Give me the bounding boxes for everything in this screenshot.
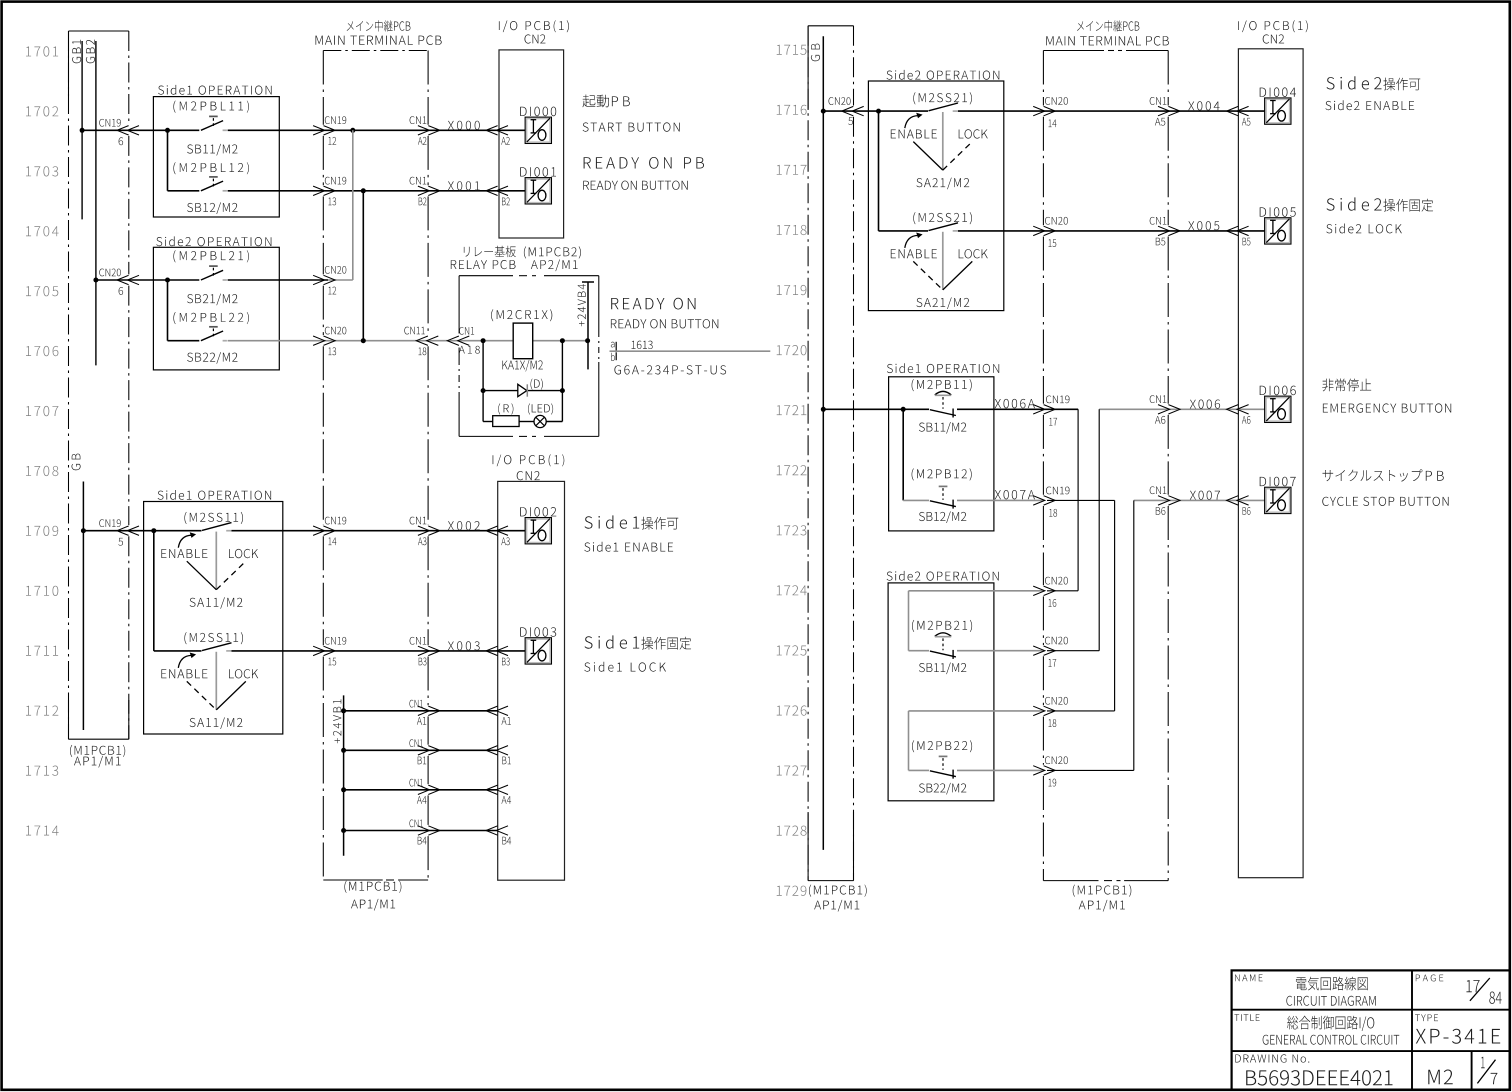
title block TYPE cell XP-341E	[1415, 1014, 1438, 1021]
emergency pushbutton SB11/M2 side2 (NC, mushroom)	[930, 651, 956, 657]
title block TITLE cell	[1234, 1014, 1259, 1021]
line number 1706	[26, 346, 58, 356]
PCB boundary (M1PCB1) AP1/M1 right GB box	[808, 25, 853, 27]
bus GB2	[86, 40, 95, 64]
junction X004 branch	[876, 109, 881, 114]
label (M2PB22)	[912, 740, 972, 752]
line number 1729	[777, 886, 807, 896]
wire link X007A down to CN20-18	[1114, 500, 1116, 711]
connector arrow CN2-A6	[1227, 405, 1239, 414]
line number 1723	[777, 525, 807, 535]
line number 1705	[26, 286, 58, 296]
junction X000 branch to SB12	[165, 128, 170, 133]
connector box I/O PCB(1) CN2 lower-left	[498, 481, 565, 880]
label MAIN TERMINAL PCB right header	[1077, 20, 1139, 31]
line number 1711	[26, 646, 58, 656]
label DI007	[1260, 477, 1296, 487]
connector arrow CN20-13	[313, 336, 325, 345]
line number 1702	[26, 106, 58, 116]
pin label CN20-17	[1045, 637, 1068, 645]
line number 1728	[777, 826, 807, 836]
junction branch to SB22	[165, 278, 170, 283]
pin label CN1-A2	[410, 116, 427, 124]
connector arrow CN19-14	[313, 526, 325, 535]
wire resistor to LED	[519, 421, 534, 423]
label (M2PBL11)	[173, 101, 249, 113]
line number 1708	[26, 466, 58, 476]
pushbutton SB22/M2 (NO contact)	[201, 331, 223, 341]
junction X001 link to CN20-13	[361, 188, 366, 193]
pin label CN1-B4	[409, 820, 422, 828]
label (M1PCB1) AP1/M1 left	[70, 745, 125, 757]
label 1613	[632, 341, 653, 349]
wire CN20-19 (grey)	[957, 769, 1043, 771]
label (M2PBL21)	[173, 250, 249, 262]
connector arrow CN19-12	[313, 126, 325, 135]
connector arrow CN20-19	[1033, 766, 1045, 775]
wire link X006A down to CN20-16	[1077, 409, 1079, 591]
pin label CN20-12	[325, 266, 346, 274]
connector arrow CN19-15	[313, 646, 325, 655]
line number 1713	[26, 766, 58, 776]
connector arrow CN20-17	[1033, 646, 1045, 655]
line number 1720	[777, 345, 807, 355]
wire CN20-17 (grey)	[957, 650, 1043, 652]
selector switch SA11/M2 (LOCK)	[202, 643, 232, 651]
wire link CN20-19 up to X007	[1133, 500, 1135, 770]
box Side1 OPERATION (pushbuttons SB11/SB12)	[153, 97, 279, 217]
connector arrow CN1-A4	[418, 785, 430, 794]
connector arrow CN20-18	[1033, 706, 1045, 715]
pin label B6	[1243, 507, 1251, 515]
line number 1727	[777, 765, 807, 775]
label (M2PB12)	[912, 468, 972, 480]
label DI005	[1260, 207, 1296, 217]
connector arrow CN19-13	[313, 186, 325, 195]
junction link to X001	[361, 338, 366, 343]
annotation READY ON	[611, 298, 695, 310]
annotation ready-on PB	[584, 157, 704, 169]
relay coil KA1X/M2 (M2CR1X)	[513, 323, 533, 359]
box RELAY PCB AP2/M1 (M1PCB2)	[459, 275, 513, 277]
label (M1PCB1) AP1/M1 under left terminal box	[344, 881, 401, 893]
pin label CN19-12	[325, 116, 346, 124]
off-page reference a/b to line 1613	[611, 342, 615, 348]
wire X007 to DI007 (grey)	[1134, 499, 1265, 501]
junction GB right	[821, 109, 826, 114]
annotation Side2 lock	[1327, 197, 1382, 210]
wire resistor row	[483, 421, 493, 423]
label RELAY PCB AP2/M1	[464, 246, 516, 257]
net label X003	[448, 641, 480, 650]
pushbutton SB12/M2 (NC contact)	[930, 501, 956, 507]
pin label CN11-18	[404, 327, 424, 335]
wire X006A from SB11 to CN19-17	[957, 408, 1078, 410]
junction GB1/X000	[80, 128, 85, 133]
power rail +24VB1	[343, 695, 345, 855]
selector switch SA11/M2 (ENABLE)	[202, 523, 232, 531]
pin label CN19-5	[99, 519, 120, 527]
label (M1PCB1) AP1/M1 under right terminal box	[1073, 885, 1132, 897]
label DI001	[520, 167, 556, 177]
junction +24VB1 A4	[341, 787, 346, 792]
label SB12/M2	[919, 511, 966, 523]
connector arrow CN1-B2	[418, 186, 430, 195]
connector arrow CN1-A1	[418, 706, 430, 715]
connector box I/O PCB(1) CN2 right	[1238, 49, 1303, 878]
wire +24VB1 to CN1-A1	[344, 710, 498, 712]
PCB boundary MAIN TERMINAL PCB left (M1PCB1 AP1/M1)	[323, 50, 428, 52]
emergency pushbutton SB11/M2 (NC, mushroom)	[930, 410, 956, 416]
pin label CN1-A1	[409, 700, 422, 708]
line number 1710	[26, 586, 58, 596]
label DI002	[520, 507, 556, 517]
connector arrow CN2-B5	[1227, 226, 1239, 235]
diode D (flyback)	[518, 384, 527, 396]
line number 1721	[777, 405, 807, 415]
wire X004 from GB to SA21	[823, 110, 928, 112]
pushbutton SB11/M2 (NO contact)	[201, 121, 223, 131]
pin label CN1-A4	[409, 779, 422, 787]
title block NAME cell	[1235, 975, 1263, 982]
junction relay left	[481, 338, 486, 343]
net label X006	[1190, 400, 1220, 409]
connector arrow CN19-6	[117, 126, 129, 135]
line number 1718	[777, 225, 807, 235]
label (LED)	[528, 403, 553, 414]
bus GB (right)	[811, 44, 820, 62]
pin label CN20-14	[1045, 97, 1068, 105]
line number 1707	[26, 406, 58, 416]
pin label A1	[501, 717, 510, 725]
title block M2 cell	[1428, 1070, 1452, 1085]
pin label CN1-A5	[1150, 97, 1167, 105]
label (M1PCB1) AP1/M1 right GB	[809, 885, 867, 897]
title block PAGE cell 17/84	[1416, 975, 1444, 982]
wire X004 from SA21 to DI004	[958, 110, 1265, 112]
connector arrow CN2-A1	[486, 706, 498, 715]
connector arrow CN20-12	[313, 275, 325, 284]
pin label A5	[1242, 118, 1250, 126]
wire CN20-16 (grey)	[909, 590, 1044, 592]
wire off-page link to row 1720 (grey)	[610, 350, 771, 352]
pin label B2	[502, 197, 510, 205]
label SB12/M2	[187, 202, 237, 214]
junction X000 link to CN20-12	[350, 128, 355, 133]
pushbutton SB22/M2 (NC contact)	[930, 771, 956, 777]
connector arrow CN1-A5	[1158, 106, 1170, 115]
pin label B4	[502, 837, 511, 845]
label SB21/M2	[187, 294, 237, 306]
line number 1712	[26, 706, 58, 716]
annotation Side1 enable	[585, 515, 640, 528]
junction diode right	[560, 388, 565, 393]
connector arrow CN20-15	[1033, 226, 1045, 235]
connector arrow CN2-A2	[486, 126, 498, 135]
net label X006A	[995, 399, 1035, 408]
resistor R	[493, 416, 519, 427]
box Side2 OPERATION (pushbuttons SB21/SB22)	[153, 247, 279, 370]
pin label CN1-A6	[1150, 395, 1167, 403]
connector arrow CN1-A2	[418, 126, 430, 135]
annotation emergency button	[1322, 379, 1371, 392]
pin label A2	[501, 137, 509, 145]
bus GB1	[72, 40, 81, 64]
connector arrow CN2-B4	[486, 826, 498, 835]
wire +24VB1 to CN1-B1	[344, 749, 498, 751]
pin label CN19-13	[325, 177, 346, 185]
label MAIN TERMINAL PCB left header	[347, 20, 411, 31]
wire X007A from SB12 to CN19-18 (grey)	[957, 499, 1043, 501]
wire X000 from SB11 to DI000	[228, 129, 525, 131]
wire LED to right branch	[546, 421, 562, 423]
junction relay right	[560, 338, 565, 343]
annotation Side2 enable	[1327, 76, 1382, 89]
pushbutton SB12/M2 (NO contact)	[201, 181, 223, 191]
pin label CN1-B2	[410, 177, 427, 185]
line number 1717	[777, 165, 807, 175]
wire link CN20-17 up to X006	[1098, 409, 1100, 650]
connector arrow CN20-6	[117, 275, 129, 284]
I/O input symbol DI005	[1266, 219, 1290, 243]
pin label CN1-A3	[410, 517, 427, 525]
pin label A6	[1242, 416, 1251, 424]
pin label CN19-14	[325, 517, 346, 525]
label DI003	[520, 627, 556, 637]
line number 1714	[26, 826, 59, 836]
wire X006A from GB to SB11	[823, 408, 929, 410]
junction +24VB4 feed	[585, 338, 590, 343]
net label X004	[1188, 101, 1219, 110]
line number 1725	[777, 645, 807, 655]
pin label CN20-19	[1045, 756, 1068, 764]
connector arrow CN1-B3	[418, 646, 430, 655]
line number 1715	[777, 45, 807, 55]
connector arrow CN1-B5	[1158, 226, 1170, 235]
connector arrow CN2-A4	[486, 785, 498, 794]
wire branch to SB12	[902, 409, 904, 500]
connector arrow CN2-B3	[486, 646, 498, 655]
wire from SB22 to relay coil (grey)	[228, 340, 484, 342]
wire branch to second selector SA21	[878, 111, 880, 231]
label (M2PB11)	[912, 379, 972, 391]
label (M2PBL22)	[173, 312, 249, 324]
box Side2 OPERATION (selector SA21)	[868, 81, 1003, 311]
title block frame	[1232, 970, 1510, 1089]
net label X007A	[995, 490, 1035, 499]
bus GB (lower left)	[72, 454, 81, 471]
line number 1703	[26, 166, 58, 176]
junction GB2	[93, 278, 98, 283]
wire diode row	[483, 390, 518, 392]
connector arrow CN20-14	[1033, 106, 1045, 115]
pin label CN19-18	[1046, 487, 1070, 495]
wire relay coil feed (grey)	[483, 340, 513, 342]
connector arrow CN19-5	[117, 526, 129, 535]
connector arrow CN2-B1	[486, 746, 498, 755]
net label X007	[1190, 491, 1220, 500]
label DI004	[1260, 87, 1296, 97]
line number 1722	[777, 465, 807, 475]
wire X000 from GB1 to switch SB11	[82, 129, 199, 131]
selector switch SA21/M2 (ENABLE)	[929, 103, 959, 111]
connector arrow CN2-B2	[486, 186, 498, 195]
net label X000	[448, 121, 480, 130]
label (M2CR1X)	[491, 309, 552, 321]
connector arrow CN1-A6	[1158, 405, 1170, 414]
pin label CN1-B5	[1150, 217, 1167, 225]
connector arrow CN1-B1	[418, 746, 430, 755]
connector arrow CN19-17	[1033, 405, 1045, 414]
pin label CN19-6	[99, 119, 120, 127]
pin label B3	[502, 658, 510, 666]
net label X001	[448, 181, 480, 190]
junction GB	[81, 528, 86, 533]
pin label CN20-18	[1045, 697, 1068, 705]
title block sheet 1/7 cell	[1481, 1057, 1485, 1068]
pin label CN20-13	[325, 327, 346, 335]
label KA1X/M2	[502, 360, 542, 372]
label SB11/M2	[919, 422, 966, 434]
I/O input symbol DI001	[526, 179, 550, 203]
connector arrow CN1-A3	[418, 526, 430, 535]
annotation Side1 lock	[585, 635, 640, 648]
wire X002 from SA11 to DI002	[232, 530, 526, 532]
line number 1724	[777, 585, 807, 595]
label (M2PB21)	[912, 620, 972, 632]
junction GB X006A	[821, 407, 826, 412]
connector arrow CN11-18	[416, 336, 428, 345]
I/O input symbol DI006	[1266, 397, 1290, 421]
junction +24VB1 B1	[341, 748, 346, 753]
wire branch to SB22	[908, 711, 910, 771]
title block DRAWING No. cell	[1235, 1054, 1309, 1062]
label SB22/M2	[187, 352, 237, 364]
wire branch to SB11 side2	[908, 591, 910, 651]
wire branch to SB22	[167, 280, 169, 341]
wire branch from X000 junction to SB12	[167, 130, 169, 191]
pushbutton SB21/M2 (NO contact)	[201, 270, 223, 280]
I/O input symbol DI003	[526, 639, 550, 663]
I/O input symbol DI000	[526, 118, 550, 142]
LED indicator	[534, 415, 546, 427]
pin label CN19-17	[1046, 396, 1070, 404]
box Side1 OPERATION (NC pushbuttons SB11/SB12)	[889, 377, 994, 531]
connector arrow CN20-16	[1033, 586, 1045, 595]
I/O input symbol DI007	[1266, 489, 1290, 513]
I/O input symbol DI004	[1266, 99, 1290, 123]
wire X006 to DI006 (grey)	[1099, 408, 1264, 410]
connector arrow CN20-5	[842, 106, 854, 115]
power rail +24VB4	[587, 282, 589, 369]
label (R)	[498, 403, 513, 414]
wire from SB21 to CN20-12	[228, 279, 328, 281]
connector arrow CN2-A3	[486, 526, 498, 535]
value label G6A-234P-ST-US	[614, 365, 726, 374]
wire CN20-18 (grey)	[909, 710, 1044, 712]
pin label CN20-15	[1045, 217, 1068, 225]
pin label B1	[502, 757, 511, 765]
pin label CN20-16	[1045, 577, 1068, 585]
junction diode left	[481, 388, 486, 393]
label DI006	[1260, 386, 1296, 396]
line number 1719	[777, 285, 807, 295]
pin label A4	[501, 796, 511, 804]
junction +24VB1 A1	[341, 708, 346, 713]
pin label CN1-A18	[459, 327, 474, 335]
pin label A3	[501, 537, 509, 545]
label (M2PBL12)	[173, 162, 249, 174]
wire X001 from SB12 to DI001	[228, 190, 525, 192]
label SB11/M2	[187, 144, 237, 156]
I/O input symbol DI002	[526, 519, 550, 543]
line number 1709	[26, 526, 58, 536]
PCB boundary MAIN TERMINAL PCB right (M1PCB1 AP1/M1)	[1043, 50, 1104, 52]
connector arrow CN19-18	[1033, 496, 1045, 505]
label SB11/M2 (side2)	[919, 663, 966, 675]
pin label CN1-B1	[409, 739, 422, 747]
wire X002 from GB to selector SA11	[83, 530, 201, 532]
box Side1 OPERATION (selector SA11)	[144, 502, 283, 735]
wire link CN20-12 up to X000 (grey)	[328, 279, 353, 281]
junction +24VB1 B4	[341, 828, 346, 833]
net label X002	[448, 521, 480, 530]
line number 1716	[777, 105, 807, 115]
pin label CN1-B6	[1150, 486, 1167, 494]
label (D)	[531, 379, 543, 390]
line number 1704	[26, 226, 59, 236]
pin label CN20-6	[99, 269, 121, 277]
line number 1701	[26, 46, 58, 56]
connector arrow CN2-A5	[1227, 106, 1239, 115]
pin label CN1-B3	[410, 637, 427, 645]
junction X002 branch	[151, 528, 156, 533]
connector arrow CN1-A18	[447, 336, 459, 345]
wire relay right branch	[561, 341, 563, 422]
label SB22/M2	[919, 783, 966, 795]
wire link CN20-13 up to X001	[362, 191, 364, 341]
annotation start button	[583, 95, 610, 108]
selector switch SA21/M2 (LOCK)	[929, 223, 959, 231]
junction X006A branch	[901, 407, 906, 412]
pin label CN20-5	[828, 97, 850, 105]
label DI000	[520, 107, 556, 117]
wire branch to second selector	[153, 531, 155, 651]
box Side2 OPERATION (NC pushbuttons SB11/SB22)	[888, 583, 994, 801]
wire X005 from SA21 to DI005	[958, 230, 1265, 232]
annotation cycle stop button	[1323, 469, 1423, 481]
connector arrow CN2-B6	[1227, 496, 1239, 505]
wire +24VB1 to CN1-B4	[344, 830, 498, 832]
wire from GB2 to switch SB21	[96, 279, 199, 281]
wire relay left branch	[482, 341, 484, 422]
connector box I/O PCB(1) CN2 upper-left	[499, 50, 564, 238]
connector arrow CN1-B6	[1158, 496, 1170, 505]
connector arrow CN1-B4	[418, 826, 430, 835]
line number 1726	[777, 705, 807, 715]
pin label CN19-15	[325, 637, 346, 645]
wire X003 from SA11 to DI003	[232, 650, 526, 652]
wire +24VB1 to CN1-A4	[344, 789, 498, 791]
pin label B5	[1243, 238, 1251, 246]
net label X005	[1188, 221, 1219, 230]
